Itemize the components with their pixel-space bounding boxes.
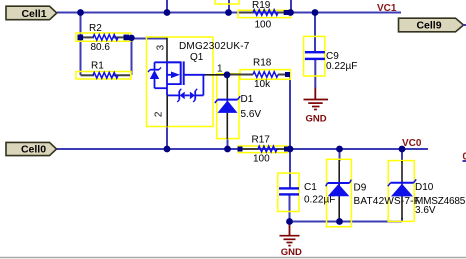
wire Q1 pin2 down	[166, 126, 168, 149]
wire stub up at x=167	[166, 0, 168, 13]
diode D1 5.6V zener	[215, 75, 262, 139]
tvs right diode	[190, 92, 195, 100]
svg-text:Q1: Q1	[190, 52, 204, 63]
svg-text:5.6V: 5.6V	[241, 109, 262, 120]
svg-text:100: 100	[255, 20, 272, 31]
junction lower rail at D9	[336, 146, 343, 153]
svg-text:10k: 10k	[254, 79, 271, 90]
wire Cell9 tip stub	[463, 24, 466, 26]
svg-text:DMG2302UK-7: DMG2302UK-7	[179, 41, 250, 52]
wire top rail VC1	[57, 12, 401, 14]
wire R2 to Q1 pin3	[132, 38, 168, 40]
junction top rail at C9 branch	[312, 9, 319, 16]
capacitor C1	[279, 182, 335, 206]
resistor R18	[229, 58, 290, 91]
capacitor C9	[305, 51, 357, 72]
svg-text:R2: R2	[89, 23, 102, 34]
gate zener	[154, 62, 156, 70]
wire C9 to gnd	[314, 59, 316, 88]
resistor R2	[78, 23, 130, 53]
highlight box D9	[327, 159, 352, 227]
svg-text:80.6: 80.6	[91, 42, 111, 53]
highlight box R2	[76, 33, 131, 41]
pin 1	[205, 74, 225, 76]
junction lower rail at D10	[399, 146, 406, 153]
wire D1 down	[227, 138, 229, 149]
port Cell0	[6, 142, 57, 155]
svg-text:D9: D9	[354, 183, 367, 194]
junction R2 right	[128, 35, 134, 41]
port Cell9	[399, 18, 464, 32]
mosfet stubs	[167, 61, 181, 63]
pin 3	[166, 38, 168, 63]
wire C1 bottom	[289, 194, 291, 222]
junction top rail at x167 stub	[164, 9, 171, 16]
highlight box R1	[76, 72, 131, 80]
mosfet channel bar	[180, 61, 182, 85]
tvs line right	[195, 94, 203, 96]
tvs line left	[167, 94, 179, 96]
highlight box D10	[388, 161, 414, 222]
wire lower rail VC0	[56, 148, 428, 150]
svg-text:Cell9: Cell9	[416, 20, 441, 32]
svg-text:D1: D1	[241, 94, 254, 105]
svg-text:3.6V: 3.6V	[415, 205, 436, 216]
highlight box D1	[217, 74, 239, 139]
highlight box R18	[240, 70, 290, 80]
svg-text:R1: R1	[91, 61, 104, 72]
port Cell1	[6, 6, 57, 20]
junction bottom rail at C1/GND	[286, 218, 293, 225]
wire stub up at x=229	[228, 0, 230, 13]
resistor R17	[238, 134, 290, 164]
tvs left bar	[178, 91, 180, 100]
highlight box R19	[238, 10, 291, 17]
svg-text:R17: R17	[252, 134, 271, 145]
highlight box Q1	[147, 37, 214, 127]
svg-text:2: 2	[154, 111, 165, 117]
svg-text:1: 1	[217, 64, 223, 75]
wire D10 top	[401, 149, 403, 162]
junction lower rail at C1 branch	[287, 146, 294, 153]
svg-text:100: 100	[253, 154, 270, 165]
mosfet gate bar	[183, 61, 185, 85]
junction top rail at x229 stub	[225, 9, 232, 16]
svg-text:0.22µF: 0.22µF	[326, 61, 357, 72]
gate line to pin1	[184, 74, 205, 76]
ground top (C9)	[304, 88, 329, 125]
junction top rail at x291 stub	[287, 9, 294, 16]
wire D10 bottom corner	[401, 218, 403, 222]
highlight box R17	[238, 146, 287, 153]
junction Q1 pin1 / D1 / R18 node	[224, 71, 231, 78]
diode D9 BAT42WS schottky	[326, 160, 420, 221]
svg-text:BAT42WS-7-F: BAT42WS-7-F	[354, 196, 420, 207]
highlight box C9	[304, 36, 325, 76]
pin 2	[166, 95, 168, 126]
junction top rail at R2 branch	[77, 9, 84, 16]
svg-text:R19: R19	[252, 0, 271, 11]
resistor R19	[240, 0, 289, 31]
separator line bottom	[0, 257, 466, 259]
wire R18 right vertical to C1	[289, 75, 291, 189]
wire R2/R1 right vertical	[131, 37, 133, 75]
diode D10 MMSZ4685 zener	[388, 161, 466, 219]
tvs right bar	[194, 91, 196, 100]
transistor Q1 DMG2302UK-7	[148, 38, 250, 127]
svg-text:Cell0: Cell0	[21, 144, 46, 156]
gate top line	[155, 61, 181, 63]
svg-text:3: 3	[156, 44, 167, 50]
junction lower rail at D1	[224, 146, 231, 153]
junction bottom rail at D9	[336, 218, 343, 225]
svg-text:GND: GND	[281, 247, 302, 258]
wire stub up at x=291	[290, 0, 292, 13]
source rail	[166, 62, 168, 95]
tvs left diode	[180, 92, 185, 100]
svg-text:R18: R18	[253, 58, 272, 69]
wire C9 drop	[314, 13, 316, 54]
svg-text:C1: C1	[304, 182, 317, 193]
svg-text:VC0: VC0	[402, 138, 422, 149]
wire D9 top	[339, 149, 341, 161]
highlight box fragment top edge	[215, 0, 239, 4]
resistor R1	[81, 61, 131, 79]
svg-text:D10: D10	[415, 182, 434, 193]
svg-text:GND: GND	[306, 113, 327, 124]
highlight box C1	[278, 173, 299, 211]
svg-text:VC1: VC1	[377, 3, 397, 14]
ground bottom (C1)	[280, 222, 303, 258]
wire bottom gnd rail	[290, 221, 403, 223]
wire R2 left vertical	[80, 13, 82, 76]
junction lower rail at Q1 pin2	[164, 146, 171, 153]
svg-text:Cell1: Cell1	[21, 8, 46, 20]
